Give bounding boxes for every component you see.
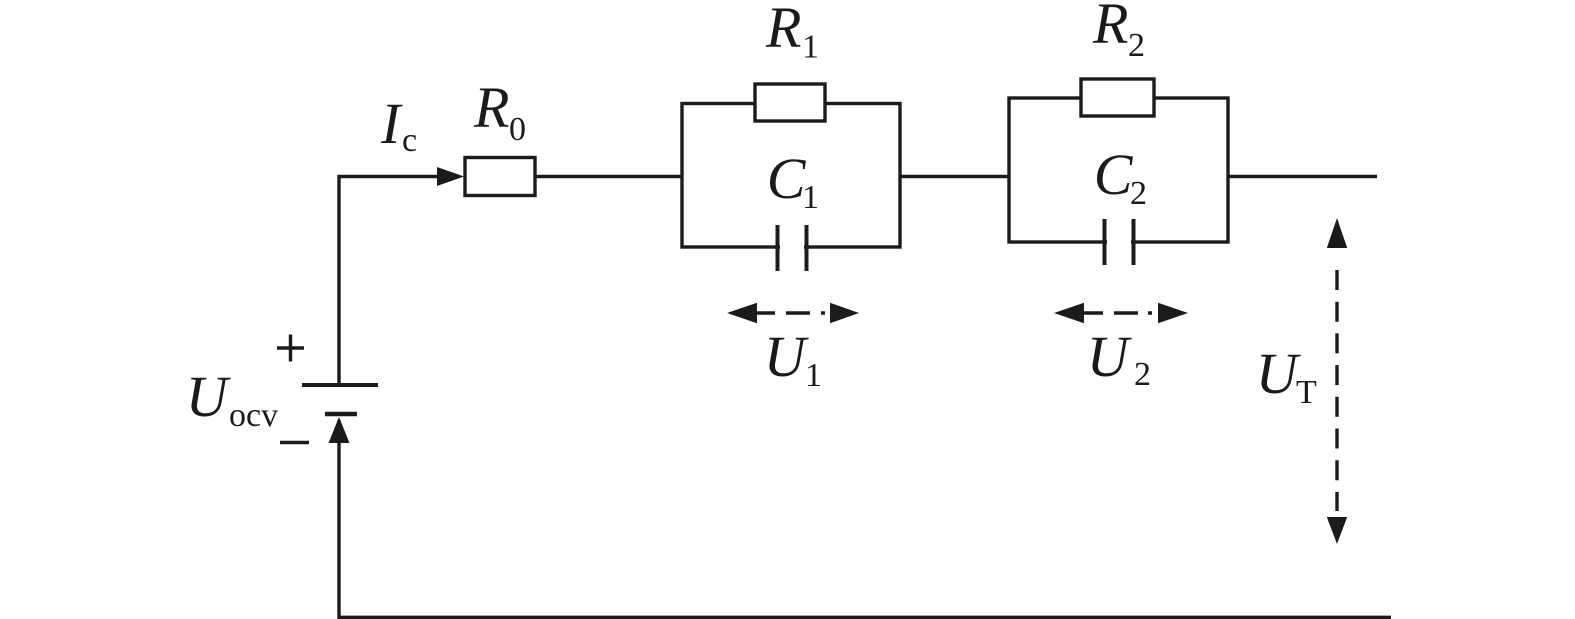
svg-text:I: I xyxy=(380,91,403,156)
svg-text:U: U xyxy=(186,364,232,429)
svg-text:R: R xyxy=(473,75,509,140)
svg-text:2: 2 xyxy=(1134,356,1151,393)
svg-text:ocv: ocv xyxy=(229,397,278,434)
svg-text:R: R xyxy=(765,0,801,60)
svg-text:U: U xyxy=(764,324,810,389)
svg-text:1: 1 xyxy=(805,357,822,394)
svg-text:2: 2 xyxy=(1128,27,1145,64)
svg-text:C: C xyxy=(767,146,807,211)
svg-text:U: U xyxy=(1256,341,1302,406)
svg-text:c: c xyxy=(402,122,417,159)
svg-text:T: T xyxy=(1296,374,1317,411)
svg-text:0: 0 xyxy=(509,111,526,148)
svg-text:R: R xyxy=(1092,0,1128,56)
svg-text:1: 1 xyxy=(802,29,819,66)
svg-text:C: C xyxy=(1094,142,1134,207)
svg-text:2: 2 xyxy=(1130,175,1147,212)
svg-text:U: U xyxy=(1087,324,1133,389)
svg-text:1: 1 xyxy=(802,179,819,216)
